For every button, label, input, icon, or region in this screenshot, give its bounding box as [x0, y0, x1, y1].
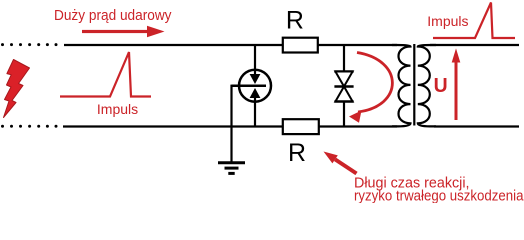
- wire: top line left segment: [64, 44, 283, 46]
- wire: top line between resistor R(top) and transformer: [318, 44, 397, 46]
- TVS diode D1: lower triangle (pointing up): [335, 87, 352, 102]
- wire: bottom line between resistor R(bottom) and transformer: [318, 125, 397, 127]
- wire: bottom line right of transformer: [434, 125, 519, 127]
- TVS diode D1: top lead: [343, 45, 345, 72]
- wire: bottom line left segment: [63, 125, 283, 127]
- transformer T1: secondary winding: [418, 45, 436, 126]
- svg-text:R: R: [288, 139, 306, 167]
- TVS diode D1: middle bar: [334, 85, 353, 87]
- wire: electrode to ground (vertical): [230, 85, 232, 162]
- svg-text:ryzyko trwałego uszkodzenia: ryzyko trwałego uszkodzenia: [354, 188, 524, 204]
- TVS diode D1: upper triangle (pointing down): [335, 72, 352, 87]
- svg-text:R: R: [286, 6, 304, 34]
- TVS diode D1: bottom lead: [343, 102, 345, 127]
- gas discharge tube G1: down arrowhead: [250, 74, 261, 84]
- arrow: U voltage (red, up): [452, 48, 461, 120]
- resistor R (top) body: [283, 38, 318, 53]
- arrow: pointing at resistor (red, up-left): [324, 152, 358, 176]
- svg-text:U: U: [434, 75, 448, 97]
- wire: top line dotted left segment: [1, 43, 58, 46]
- gas discharge tube G1: center electrode bar: [232, 85, 267, 88]
- wire: bottom line dotted left segment: [1, 125, 58, 128]
- gas discharge tube G1: top lead: [254, 45, 256, 76]
- wire: top line right of transformer: [430, 44, 519, 46]
- TVS diode D1: bottom bar: [334, 100, 353, 102]
- transformer T1: primary winding: [392, 45, 411, 126]
- resistor R (bottom) body: [283, 119, 319, 134]
- gas discharge tube G1: circle body: [239, 70, 271, 102]
- TVS diode D1: top bar: [334, 70, 353, 72]
- waveform: output impulse (red pulse right): [433, 3, 515, 39]
- lightning bolt symbol (surge source): [4, 60, 30, 118]
- transformer T1: core: [413, 44, 415, 126]
- waveform: input impulse (red pulse left): [60, 52, 151, 97]
- svg-text:Duży prąd udarowy: Duży prąd udarowy: [54, 7, 172, 24]
- gas discharge tube G1: bottom lead: [254, 96, 256, 127]
- svg-text:Impuls: Impuls: [97, 101, 138, 117]
- arrow: surge current direction (red, right): [82, 26, 165, 37]
- gas discharge tube G1: up arrowhead: [250, 88, 261, 98]
- ground symbol: [218, 163, 245, 174]
- svg-text:Impuls: Impuls: [427, 13, 468, 29]
- arrow: red curved arrow around diode: [357, 53, 392, 113]
